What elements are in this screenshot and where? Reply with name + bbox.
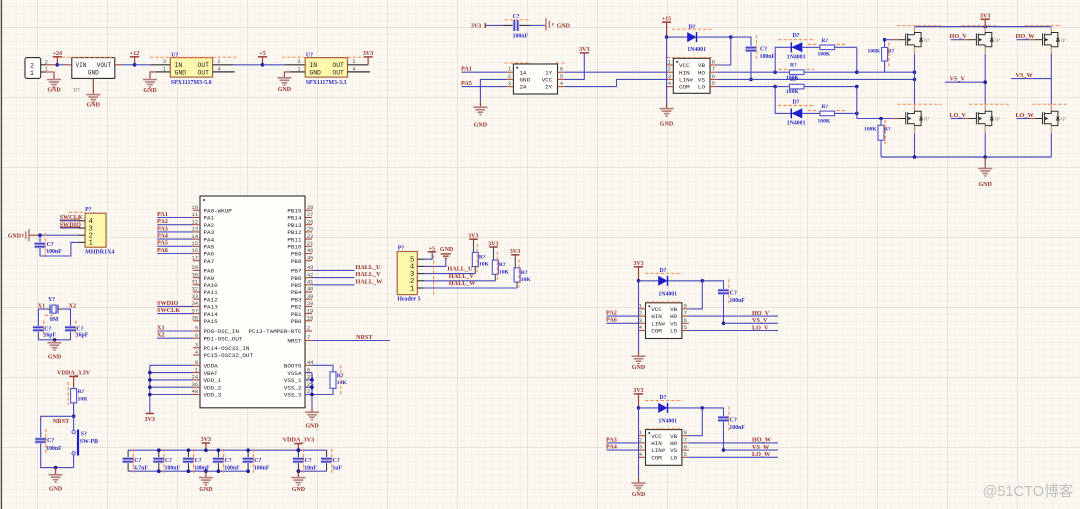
junction 3V3 bank xyxy=(204,448,208,452)
svg-text:5: 5 xyxy=(712,81,715,87)
svg-text:3: 3 xyxy=(508,81,511,87)
svg-text:PA4: PA4 xyxy=(204,236,215,243)
wire +15 node to D1 anode xyxy=(667,36,688,38)
svg-text:GND: GND xyxy=(305,424,319,430)
svg-text:LO: LO xyxy=(670,454,678,461)
svg-text:PA5: PA5 xyxy=(204,244,215,251)
wire C2 to VS line xyxy=(750,52,752,79)
wire HO_V to gate xyxy=(951,39,965,41)
wire NRST net from MCU xyxy=(312,340,390,342)
svg-text:VS: VS xyxy=(698,77,706,84)
svg-text:VDD_1: VDD_1 xyxy=(204,377,222,384)
svg-text:LIN#: LIN# xyxy=(651,447,666,454)
svg-text:P?: P? xyxy=(85,207,92,213)
svg-text:LO: LO xyxy=(670,328,678,335)
header pin 4 xyxy=(78,220,85,222)
orange mark above U5 xyxy=(62,56,115,58)
buffer pin 3 xyxy=(506,86,513,88)
svg-text:C?: C? xyxy=(44,326,51,332)
svg-text:26: 26 xyxy=(307,219,313,225)
svg-text:PA14: PA14 xyxy=(204,311,219,318)
svg-text:Header 5: Header 5 xyxy=(397,296,420,302)
ground of IR2104 xyxy=(632,355,646,357)
svg-text:NRST: NRST xyxy=(356,334,373,341)
MCU pin 15 PA5 xyxy=(193,245,200,247)
MCU pin 19 PB1 xyxy=(305,313,312,315)
MCU pin 21 PB10 xyxy=(305,245,312,247)
svg-text:R?: R? xyxy=(78,389,85,395)
svg-text:+5: +5 xyxy=(259,51,265,57)
svg-text:100nF: 100nF xyxy=(194,466,210,472)
resistor R? 100K (LO bypass) xyxy=(802,112,820,114)
svg-text:R?: R? xyxy=(521,270,528,276)
junction reset gnd xyxy=(54,466,58,470)
svg-text:100K: 100K xyxy=(818,52,831,58)
MOSFET Q? phase U low xyxy=(898,118,905,120)
buffer pin 6 xyxy=(558,71,565,73)
svg-text:HALL_V: HALL_V xyxy=(449,273,475,280)
wire VS_V to column V xyxy=(945,81,985,83)
svg-text:PA5: PA5 xyxy=(461,80,472,87)
svg-text:VCC: VCC xyxy=(542,77,553,84)
wire PA4 to LIN xyxy=(607,449,639,451)
wire PA3 to HIN xyxy=(607,442,639,444)
svg-text:3: 3 xyxy=(297,59,300,65)
svg-text:PB8: PB8 xyxy=(291,258,302,265)
svg-text:20: 20 xyxy=(307,301,313,307)
svg-text:R?: R? xyxy=(790,63,797,69)
svg-text:PA3: PA3 xyxy=(204,229,215,236)
svg-text:PA8: PA8 xyxy=(204,268,215,275)
svg-text:PA6: PA6 xyxy=(157,247,168,254)
wire HALL_U from PB7 xyxy=(312,269,355,271)
svg-text:GND: GND xyxy=(632,492,646,498)
svg-text:PA2: PA2 xyxy=(204,222,215,229)
orange marks above low FETs xyxy=(898,103,942,105)
MOSFET Q? phase W high xyxy=(1050,27,1052,33)
capacitor C? 100nF (top filter) xyxy=(513,20,516,31)
svg-text:VS: VS xyxy=(670,447,678,454)
svg-text:VSS_3: VSS_3 xyxy=(284,392,302,399)
buffer U8 (dual gate) xyxy=(513,64,557,94)
wire PA6 to LIN xyxy=(607,322,639,324)
MCU pin 1 VBAT xyxy=(193,372,200,374)
svg-text:GND: GND xyxy=(49,487,63,493)
svg-text:HIN: HIN xyxy=(679,69,690,76)
wire PA1 to buffer 1A xyxy=(462,71,507,73)
buffer pin 2 xyxy=(506,78,513,80)
wire cap to VS xyxy=(723,295,725,324)
svg-text:VSS_1: VSS_1 xyxy=(284,377,302,384)
ground at bridge xyxy=(978,168,992,170)
svg-text:VSSA: VSSA xyxy=(287,370,302,377)
wire SWDIO xyxy=(60,227,78,229)
VDD bus left xyxy=(149,365,151,413)
buffer pin 5 xyxy=(558,78,565,80)
junction decoupling xyxy=(217,448,221,452)
svg-text:LIN#: LIN# xyxy=(679,77,694,84)
wire VB pin to bootstrap node xyxy=(689,408,702,436)
resistor R? 100K (low gate pulldown) xyxy=(880,119,882,126)
pin 1 of P1 xyxy=(41,71,46,73)
wire P1 pin2 to +24 node xyxy=(46,64,58,66)
ground at U7 xyxy=(277,77,291,79)
junction +15 node xyxy=(665,35,669,39)
svg-text:X1: X1 xyxy=(157,324,165,331)
header pin 1 xyxy=(78,241,85,243)
svg-text:1Y: 1Y xyxy=(545,69,553,76)
svg-text:1N4001: 1N4001 xyxy=(658,418,677,424)
wire node Y down to low gate row xyxy=(856,87,858,119)
MCU pin 33 PA12 xyxy=(193,298,200,300)
svg-text:VB: VB xyxy=(670,433,678,440)
IC IR2104 #1 xyxy=(673,58,710,93)
svg-text:31: 31 xyxy=(192,280,198,286)
svg-text:R?: R? xyxy=(479,254,486,260)
svg-text:1N4001: 1N4001 xyxy=(658,291,677,297)
MCU pin 16 PA6 xyxy=(193,253,200,255)
resistor R? 10K pullup xyxy=(514,268,520,282)
svg-text:C?: C? xyxy=(730,417,737,423)
svg-text:SPX1117M3-5.0: SPX1117M3-5.0 xyxy=(171,80,212,86)
svg-text:3V3: 3V3 xyxy=(579,47,589,53)
svg-text:4: 4 xyxy=(195,350,198,356)
svg-text:C?: C? xyxy=(254,458,261,464)
svg-text:HO: HO xyxy=(698,69,706,76)
svg-text:1N4001: 1N4001 xyxy=(687,47,706,53)
svg-text:1A: 1A xyxy=(520,69,528,76)
svg-text:IN: IN xyxy=(309,62,317,69)
svg-text:P?: P? xyxy=(398,245,405,251)
svg-text:PA6: PA6 xyxy=(606,317,617,324)
buffer pin 4 xyxy=(558,86,565,88)
svg-text:6: 6 xyxy=(195,333,198,339)
wire HO_W to gate xyxy=(1017,39,1031,41)
svg-text:6: 6 xyxy=(560,67,563,73)
capacitor C? 16pF left xyxy=(33,326,44,329)
junction HO at column U xyxy=(913,70,917,74)
MCU pin 5 PD0-OSC_IN xyxy=(193,330,200,332)
svg-text:8: 8 xyxy=(712,60,715,66)
ground of IR2104 xyxy=(632,482,646,484)
svg-text:C?: C? xyxy=(47,438,54,444)
hall header pin 2 xyxy=(417,280,424,282)
MCU pin 45 PB8 xyxy=(305,260,312,262)
svg-text:2: 2 xyxy=(217,59,220,65)
svg-text:PA1: PA1 xyxy=(461,66,472,73)
svg-text:Q?: Q? xyxy=(1061,37,1066,42)
wire pin5 to +5 xyxy=(424,252,432,259)
svg-text:21: 21 xyxy=(307,241,313,247)
svg-text:1: 1 xyxy=(297,66,300,72)
column V phase wire xyxy=(984,47,986,54)
svg-text:PA1: PA1 xyxy=(157,211,168,218)
svg-text:PD1-OSC_OUT: PD1-OSC_OUT xyxy=(204,335,243,342)
MCU pin 27 VSS_3 xyxy=(305,394,312,396)
ground at crystal xyxy=(48,342,62,344)
power port +5 xyxy=(258,56,267,58)
junction VDDA bank xyxy=(297,448,301,452)
svg-text:HALL_W: HALL_W xyxy=(356,278,384,285)
svg-text:PB1: PB1 xyxy=(291,311,302,318)
svg-text:100nF: 100nF xyxy=(46,249,62,255)
IR1 pin 8 xyxy=(710,64,717,66)
svg-text:3V3: 3V3 xyxy=(145,417,155,423)
svg-text:4: 4 xyxy=(217,66,220,72)
MCU pin 23 VSS_1 xyxy=(305,379,312,381)
connector P1 (2-pin) xyxy=(25,58,41,79)
svg-text:GND: GND xyxy=(979,182,993,188)
svg-text:PA15: PA15 xyxy=(204,318,219,325)
MCU pin 29 PA8 xyxy=(193,269,200,271)
ground at bank left xyxy=(204,469,208,473)
pin 4 of U7 xyxy=(347,71,370,73)
svg-text:PA2: PA2 xyxy=(157,218,168,225)
IR1 pin 3 xyxy=(666,78,673,80)
svg-text:PB0: PB0 xyxy=(291,318,302,325)
MCU pin 37 PA14 xyxy=(193,313,200,315)
svg-text:3: 3 xyxy=(668,74,671,80)
svg-text:C?: C? xyxy=(165,458,172,464)
svg-text:1: 1 xyxy=(195,367,198,373)
svg-text:100K: 100K xyxy=(786,89,799,95)
junction VB node xyxy=(701,406,705,410)
junction 3V3/VCC node xyxy=(637,279,641,283)
svg-text:100nF: 100nF xyxy=(513,34,529,40)
column W phase wire xyxy=(1050,47,1052,54)
svg-text:10: 10 xyxy=(192,205,198,211)
power port 3V3 at buffer xyxy=(580,52,589,54)
wire U7 GND pin to ground xyxy=(284,72,290,78)
svg-text:PB4: PB4 xyxy=(291,289,302,296)
svg-text:100nF: 100nF xyxy=(760,54,776,60)
ground at buffer xyxy=(473,106,487,108)
left pins xyxy=(639,308,646,310)
MCU pin 38 PA15 xyxy=(193,320,200,322)
svg-text:3: 3 xyxy=(639,318,642,324)
svg-text:S?: S? xyxy=(81,431,87,437)
orange mark above U7 xyxy=(282,56,305,58)
MCU pin 20 PB2 xyxy=(305,305,312,307)
power port +12 xyxy=(130,56,139,58)
power port 3V3 (bridge) xyxy=(981,18,990,20)
svg-text:VCC: VCC xyxy=(651,306,662,313)
svg-text:100nF: 100nF xyxy=(165,466,181,472)
capacitor C? 100nF bootstrap xyxy=(718,416,729,419)
ground right-facing at C1 xyxy=(545,18,547,30)
header P? Header 5 xyxy=(397,252,417,295)
IR1 pin 7 xyxy=(710,71,717,73)
capacitor C? 100nF reset xyxy=(35,438,46,441)
svg-text:HALL_V: HALL_V xyxy=(356,271,382,278)
decoupling bottom bus xyxy=(128,470,248,472)
resistor R? 100K (HO bypass) xyxy=(802,46,820,48)
wire LO_W to gate xyxy=(1017,118,1031,120)
MCU pin 39 PB3 xyxy=(305,298,312,300)
MCU pin 24 VDD_1 xyxy=(193,379,200,381)
svg-text:C?: C? xyxy=(760,47,767,53)
svg-text:HALL_W: HALL_W xyxy=(449,280,477,287)
svg-text:4.7uF: 4.7uF xyxy=(134,466,148,472)
svg-text:4: 4 xyxy=(352,66,355,72)
top rail 3V3 xyxy=(915,26,1052,28)
svg-text:7: 7 xyxy=(307,335,310,341)
junction header GND node xyxy=(38,233,42,237)
wire switch to bottom xyxy=(73,455,75,468)
svg-text:C?: C? xyxy=(225,458,232,464)
svg-text:4: 4 xyxy=(639,325,642,331)
svg-text:Q?: Q? xyxy=(924,37,929,42)
MCU pin 2 PC13-TAMPER-RTC xyxy=(305,330,312,332)
svg-text:3V3: 3V3 xyxy=(980,13,990,19)
svg-text:MHDR1X4: MHDR1X4 xyxy=(85,250,114,256)
svg-text:GND: GND xyxy=(48,355,62,361)
svg-text:2: 2 xyxy=(508,74,511,80)
wire VB node to C2 xyxy=(731,37,751,46)
MCU pin 25 PB12 xyxy=(305,231,312,233)
power port 3V3 below VDD bus xyxy=(146,413,154,415)
svg-text:PA10: PA10 xyxy=(204,282,219,289)
wire to diode anode xyxy=(639,407,659,409)
wire high gate U xyxy=(885,39,893,41)
wire to diode anode xyxy=(639,280,659,282)
svg-text:C?: C? xyxy=(134,458,141,464)
svg-text:VS_V: VS_V xyxy=(950,76,966,83)
power port 3V3 xyxy=(634,393,643,395)
orange mark above IC xyxy=(646,301,682,303)
capacitor C? 100nF xyxy=(158,450,160,457)
svg-text:10nF: 10nF xyxy=(304,466,317,472)
svg-text:LIN#: LIN# xyxy=(651,320,666,327)
svg-text:2: 2 xyxy=(307,326,310,332)
junction node Y xyxy=(855,85,859,89)
MCU pin 9 VDDA xyxy=(193,364,200,366)
MCU pin 22 PB11 xyxy=(305,238,312,240)
wire PA2 to HIN xyxy=(607,315,639,317)
ground at P1 xyxy=(47,79,61,81)
wire low gate U xyxy=(857,118,893,120)
svg-text:HALL_U: HALL_U xyxy=(356,264,382,271)
wire IR1 LO to gate network xyxy=(717,86,775,88)
svg-text:2: 2 xyxy=(668,67,671,73)
svg-text:Q?: Q? xyxy=(995,37,1000,42)
wire pin3 HALL_U xyxy=(424,273,475,275)
svg-text:6: 6 xyxy=(712,74,715,80)
MCU pin 34 PA13 xyxy=(193,305,200,307)
junction high gate node xyxy=(883,38,887,42)
svg-text:PC14-OSC32_IN: PC14-OSC32_IN xyxy=(204,345,250,352)
svg-text:100nF: 100nF xyxy=(46,446,62,452)
junction decoupling xyxy=(297,448,301,452)
wire LO lower branch xyxy=(775,87,791,114)
svg-text:PB11: PB11 xyxy=(287,236,302,243)
wire buffer 1Y to IR2104-1 HIN xyxy=(565,71,667,73)
svg-text:100nF: 100nF xyxy=(224,466,240,472)
MCU pin 18 PB0 xyxy=(305,320,312,322)
junction VS_V xyxy=(983,80,987,84)
svg-text:R?: R? xyxy=(499,262,506,268)
svg-text:19: 19 xyxy=(307,308,313,314)
wire 3V3 to C1 xyxy=(485,24,503,26)
IC IR2104 xyxy=(646,430,682,466)
svg-text:PB12: PB12 xyxy=(287,229,302,236)
svg-text:PA4: PA4 xyxy=(157,233,168,240)
junction +12 node xyxy=(133,63,137,67)
junction LO node xyxy=(773,85,777,89)
svg-text:U?: U? xyxy=(73,88,80,94)
wire HO out xyxy=(689,315,778,317)
MCU pin 12 PA2 xyxy=(193,224,200,226)
svg-text:GND: GND xyxy=(143,88,157,94)
wire cathode to VB node xyxy=(668,407,702,409)
svg-text:1: 1 xyxy=(668,60,671,66)
MCU pin 7 NRST xyxy=(305,340,312,342)
svg-text:9: 9 xyxy=(195,360,198,366)
svg-text:PD0-OSC_IN: PD0-OSC_IN xyxy=(204,328,240,335)
wire cathode to VB node xyxy=(668,280,702,282)
orange mark above SWD header xyxy=(69,211,86,213)
wire VB node to cap xyxy=(702,408,723,416)
hall header pin 4 xyxy=(417,265,424,267)
svg-text:COM: COM xyxy=(679,84,690,91)
wire rail to ground xyxy=(984,157,986,168)
svg-text:100nF: 100nF xyxy=(254,466,270,472)
hall header pin 3 xyxy=(417,273,424,275)
svg-text:10K: 10K xyxy=(521,277,532,283)
wire buffer 2Y to IR2104-1 LIN xyxy=(565,79,667,86)
ground at U6 xyxy=(143,79,157,81)
regulator U6 SPX1117M3-5.0 xyxy=(170,58,212,78)
svg-text:SWCLK: SWCLK xyxy=(157,307,180,314)
svg-text:U?: U? xyxy=(306,52,313,58)
svg-text:VDDA_3V3: VDDA_3V3 xyxy=(283,437,315,444)
svg-text:PB2: PB2 xyxy=(291,304,302,311)
svg-text:PA7: PA7 xyxy=(204,258,215,265)
GND pin of U5 xyxy=(92,78,94,94)
svg-text:VOUT: VOUT xyxy=(97,62,112,69)
svg-text:7: 7 xyxy=(712,67,715,73)
svg-text:D?: D? xyxy=(793,33,800,39)
wire HO bypass down to node X xyxy=(856,47,858,72)
junction crystal gnd xyxy=(53,338,57,342)
pin 1 of U6 xyxy=(156,71,170,73)
junction +24 node xyxy=(56,63,60,67)
pin 2 of U6 xyxy=(213,64,233,66)
svg-text:NRST: NRST xyxy=(287,338,302,345)
junction low gate node xyxy=(879,117,883,121)
svg-text:VIN: VIN xyxy=(76,62,87,69)
svg-text:GND: GND xyxy=(309,69,321,76)
svg-text:100nF: 100nF xyxy=(729,425,745,431)
junction 3V3 rail xyxy=(983,25,987,29)
wire node X to phase U high gate node xyxy=(857,71,915,73)
wire caps to ground xyxy=(38,339,70,341)
junction VS at column U xyxy=(913,78,917,82)
wire P1 pin1 to GND xyxy=(46,72,55,79)
svg-text:R?: R? xyxy=(790,77,797,83)
svg-text:32: 32 xyxy=(192,287,198,293)
junction bottom rail U xyxy=(913,155,917,159)
svg-text:GND: GND xyxy=(440,247,454,253)
svg-text:PA12: PA12 xyxy=(204,296,219,303)
svg-text:3V3: 3V3 xyxy=(363,51,373,57)
svg-text:2: 2 xyxy=(352,59,355,65)
svg-text:6: 6 xyxy=(684,318,687,324)
svg-text:16pF: 16pF xyxy=(44,333,57,339)
svg-text:PA13: PA13 xyxy=(204,304,219,311)
svg-text:10R: 10R xyxy=(78,397,89,403)
svg-text:C?: C? xyxy=(730,290,737,296)
